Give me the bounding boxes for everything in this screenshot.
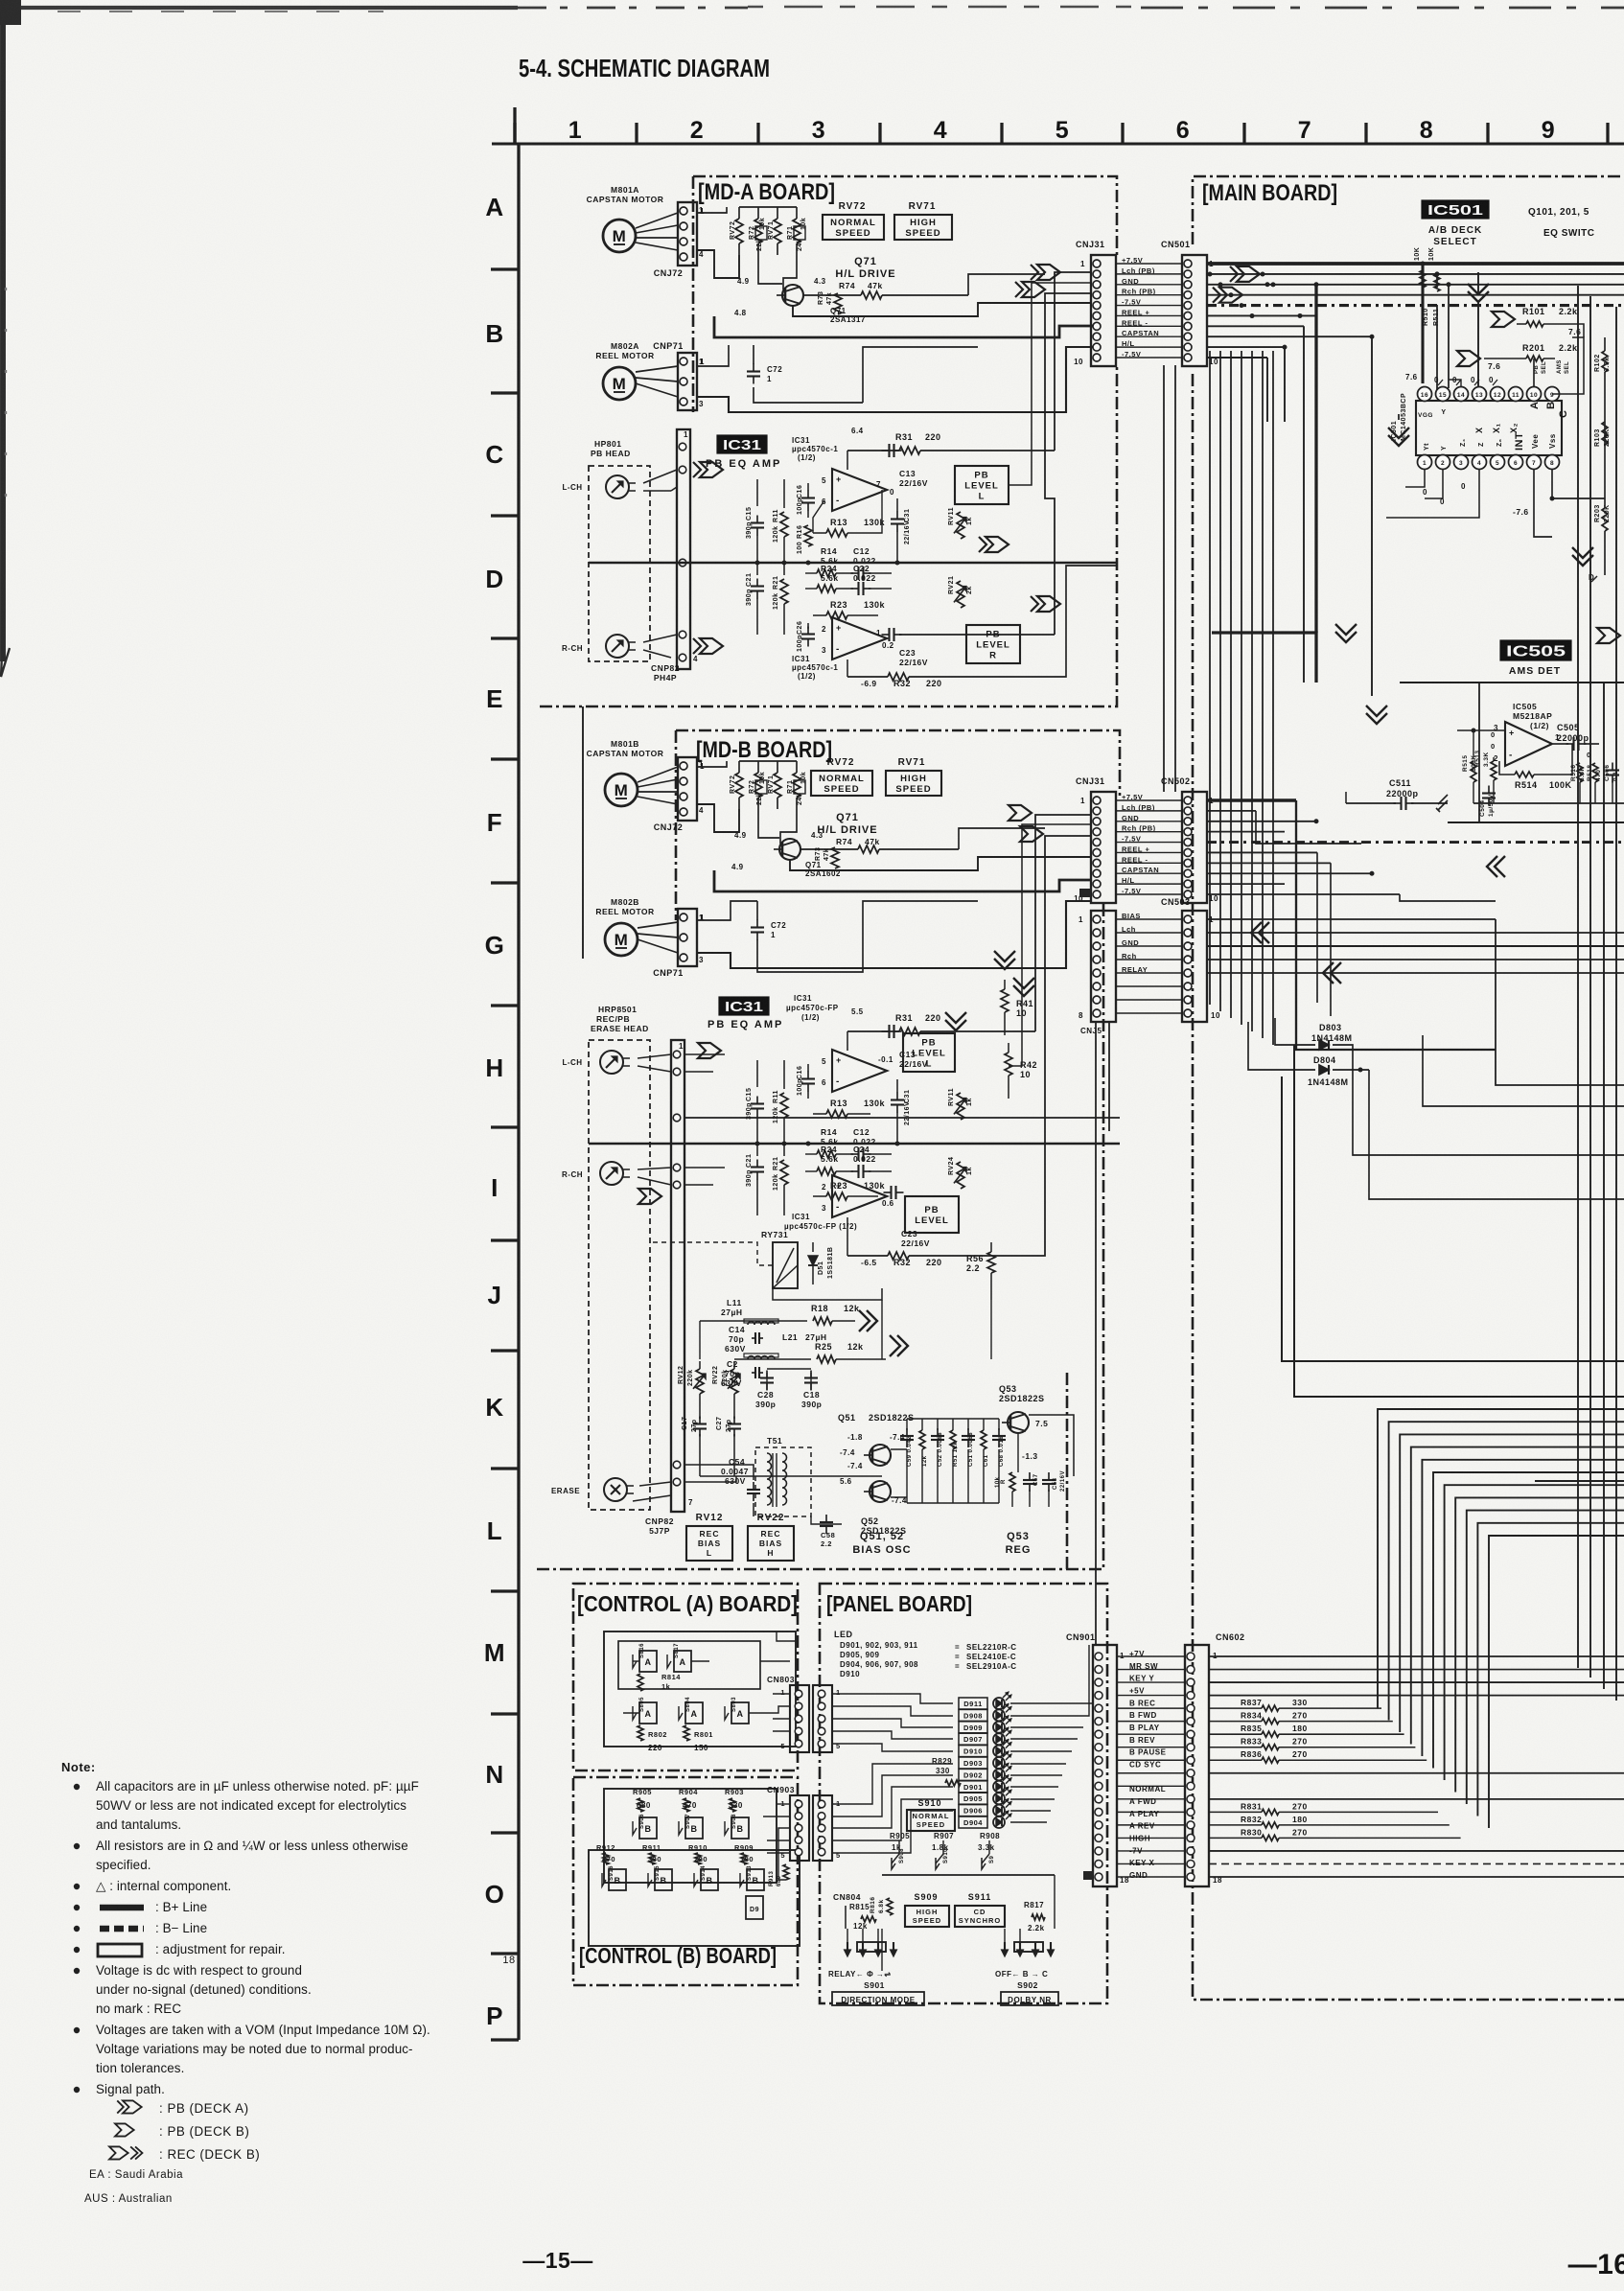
inductor L11 27uH with C14 xyxy=(721,1298,778,1354)
signal path arrow PB-B Lch input (MD-B) xyxy=(698,1043,721,1058)
resistors R905 R904 R903 (CONTROL-B) xyxy=(633,1788,744,1812)
switches S906 S907 S908 row B (CONTROL-B) xyxy=(633,1814,749,1839)
motor M802A reel motor xyxy=(595,341,678,400)
resistor R55 10k (Q53) xyxy=(995,1472,1015,1507)
resistor R13 130k feedback (MD-B) xyxy=(813,1099,886,1118)
adjustment box PB LEVEL R (MD-A) xyxy=(966,625,1020,663)
connector CNJ31 xyxy=(1074,776,1116,903)
connector CNP82 PH4P (MD-A) xyxy=(643,429,698,683)
resistor R56 2.2 xyxy=(966,1242,995,1300)
switch S909 HIGH SPEED box (panel) xyxy=(905,1892,949,1927)
MAIN board outline (dash-dot) xyxy=(1193,176,1624,2000)
resistors 10K 10K pullup (IC501) xyxy=(1414,247,1440,383)
small filled square near CN901 xyxy=(1083,1871,1094,1880)
wires MD-B motor area xyxy=(583,706,1091,972)
signal path arrow PB-A Lch input xyxy=(693,462,723,477)
resistor labels R510 R511 (IC501) xyxy=(1423,282,1451,394)
capacitor C28 390p xyxy=(755,1371,776,1410)
capacitor C72 1 (MD-A) xyxy=(747,345,782,384)
resistor R23 130k feedback (MD-A) xyxy=(813,600,886,619)
left chevron arrows on CAPSTAN row xyxy=(1487,856,1505,877)
resistor R32 220 (MD-B) xyxy=(847,1217,1035,1267)
PANEL board outline xyxy=(820,1584,1107,2003)
MD-B board outline (dash-dot) xyxy=(537,730,1120,1569)
switch S901 DIRECTION MODE (panel) xyxy=(828,1929,924,2005)
transistor Q51 with label xyxy=(838,1413,915,1470)
region notes EA AUS xyxy=(84,2169,183,2205)
switches S816 S817 leaf switch row 1 (CONTROL-A) xyxy=(633,1643,709,1691)
resistor R201 2.2k with chevron xyxy=(1457,343,1578,371)
IC501 pin voltage marks xyxy=(1405,359,1570,517)
capacitor C57 1 (Q53) xyxy=(1023,1472,1039,1507)
left ruler line xyxy=(517,144,520,2040)
trimmer RV12 220k xyxy=(678,1361,706,1409)
trimmer RV24 1k (MD-B) xyxy=(948,1157,973,1189)
adjustment box RV22 REC BIAS H xyxy=(748,1513,794,1561)
notes block xyxy=(61,1760,430,2096)
bias section wiring xyxy=(684,1054,1120,1524)
left ruler row letters A-P xyxy=(484,193,505,2030)
IC505 label AMS DET xyxy=(1500,640,1571,677)
connector CNJ72 (MD-A) xyxy=(654,202,705,278)
label Q53 REG xyxy=(1006,1531,1032,1556)
connector CNJ51 (MD-B lower) xyxy=(1079,911,1116,1035)
chevron arrows down near R41/R42 xyxy=(994,951,1034,996)
MD-B mid ground bus xyxy=(589,1142,1120,1146)
CN503 bus lines right xyxy=(1207,919,1624,1085)
mid bus lines CN502 to right xyxy=(1207,800,1624,1050)
capacitor C21 390p (MD-B) xyxy=(746,1144,764,1215)
signal path arrow PB-A Rch input xyxy=(693,638,723,654)
trimmer RV22 220k xyxy=(712,1361,740,1409)
junction dots on top bus xyxy=(1265,282,1375,349)
resistor R515 100K (IC505) xyxy=(1462,729,1477,804)
resistor R31 220 output (MD-A) xyxy=(847,432,1055,470)
resistor R18 12k with REC chevron xyxy=(778,1304,877,1331)
diode D804 1N4148M xyxy=(1248,1022,1624,1199)
capacitor C31 22/16V (MD-A) xyxy=(891,498,911,563)
signal path arrows PB-B near CNJ31-B xyxy=(1009,805,1043,842)
resistor R203 220K (right column) xyxy=(1594,498,1611,575)
bus vertical drops to mid connectors xyxy=(1212,285,1372,696)
signal path arrow PB-B Rch input (MD-B) xyxy=(638,1189,661,1204)
CONTROL-A wires to CN803 xyxy=(760,1631,796,1731)
switch S902 DOLBY NR (panel) xyxy=(995,1929,1058,2005)
capacitor C26 100p (MD-A) xyxy=(797,621,815,652)
signal path chevron right (IC505 input) xyxy=(1597,628,1620,643)
diode D201 mark xyxy=(1589,573,1597,582)
signal names CNJ31-CN502 xyxy=(1116,793,1182,895)
capacitor C23 22/16V (MD-A) xyxy=(882,628,1056,667)
resistor R41 10 (MD-B right) xyxy=(1001,980,1033,1035)
signal names CNJ51-CN503 xyxy=(1116,912,1182,1013)
resistor R11 120k (MD-A) xyxy=(773,479,788,563)
nested corner bus (panel to page 16) xyxy=(1378,1409,1624,1828)
capacitor C53 22/16V (Q53) xyxy=(1042,1470,1066,1507)
resistors R912 R911 R910 R909 (CONTROL-B) xyxy=(596,1843,754,1864)
transistor Q52 with label xyxy=(840,1477,907,1536)
trimmer RV21 1k (MD-A) xyxy=(948,576,1060,612)
vertical wires CNJ51 to CN901 xyxy=(1096,1022,1109,1645)
capacitor C511 22000p (main board) xyxy=(1346,778,1448,812)
wire corner B-REC route xyxy=(1535,1480,1624,1482)
head ERASE (MD-B) xyxy=(551,1478,634,1501)
signal path legend arrows xyxy=(109,2100,260,2162)
left chevrons on CN503 rows xyxy=(1251,922,1341,984)
adjustment box PB LEVEL R (MD-B) xyxy=(905,1196,959,1233)
signal path chevron down near CN502 b xyxy=(1366,706,1387,724)
capacitor C21 390p (MD-A) xyxy=(746,563,764,635)
trimmer RV11 1k (MD-A) xyxy=(948,507,1009,552)
resistor R24 5.6k + capacitor C22 0.022 (MD-A) xyxy=(805,564,892,595)
right edge long vertical bus xyxy=(1578,286,1616,1701)
signal path chevron down near CN502 a xyxy=(1335,624,1357,642)
connector CN503 xyxy=(1161,897,1220,1022)
motor M802B reel motor xyxy=(595,897,678,956)
motor M801A capstan motor xyxy=(587,185,678,252)
resistor R14 5.6k + capacitor C12 0.022 (MD-A) xyxy=(805,546,892,580)
resistor R73 47k (MD-B) xyxy=(815,847,839,868)
resistor R25 12k with REC chevron xyxy=(778,1335,908,1363)
op-amp IC31b R-channel (MD-A) xyxy=(792,617,894,681)
resistor R32 220 (MD-A) xyxy=(847,660,1055,688)
MD-A mid ground bus xyxy=(589,561,1117,566)
connector CN804 label (panel) xyxy=(833,1892,861,1929)
adjustment box RV71 HIGH SPEED (MD-B) xyxy=(886,757,941,796)
adjustment box RV71 HIGH SPEED (MD-A) xyxy=(894,201,952,240)
connector CN502 xyxy=(1161,776,1218,903)
resistor R31 220 output (MD-B) xyxy=(847,1013,1035,1051)
signal names CNJ31-CN501 xyxy=(1116,256,1182,359)
capacitor C31 22/16V (MD-B) xyxy=(891,1079,911,1144)
resistor R101 2.2k with chevron xyxy=(1492,307,1584,337)
junction dots bus-to-bundle xyxy=(1208,272,1276,319)
op-amp IC31b R-channel (MD-B) xyxy=(784,1175,894,1231)
resistor R14 5.6k + capacitor C12 0.022 (MD-B) xyxy=(805,1127,892,1161)
connector CN901 (panel right) xyxy=(1066,1632,1129,1886)
resistor R103 220K (right column) xyxy=(1594,422,1611,447)
resistors R516 R518 C506 (IC505 right) xyxy=(1570,763,1619,804)
resistor R817 2.2k (panel) xyxy=(1024,1901,1045,1932)
capacitor C23 22/16V (MD-B) xyxy=(884,1186,930,1248)
small filled square near CNJ31-B xyxy=(1079,889,1091,897)
CONTROL-B board outline xyxy=(573,1777,798,1985)
capacitor C505 22000p (IC505 output) xyxy=(1553,723,1599,759)
resistor R513 3.3K (IC505) xyxy=(1474,750,1496,803)
top ruler column numbers 1-9 xyxy=(568,117,1555,144)
switches S916 S915 S914 S913 row B (CONTROL-B) xyxy=(602,1865,764,1890)
head HRP8501 REC/PB erase head labels xyxy=(589,1005,650,1510)
resistor R74 47k (MD-A) xyxy=(803,281,968,299)
IC501 chip body MC14053BCP xyxy=(1391,387,1569,470)
trimmer RV11 1k (MD-B) xyxy=(948,1088,973,1120)
top bus lines CN501 to right edge xyxy=(1207,264,1624,358)
head HP801 PB head (MD-A) xyxy=(562,439,650,661)
capacitor C18 390p xyxy=(801,1371,822,1410)
LED type list (panel) xyxy=(834,1630,1017,1678)
straight panel bus lines to right edge xyxy=(1209,1656,1624,1877)
MD-A board outline (dash-dot) xyxy=(540,176,1117,706)
resistor R13 130k feedback (MD-A) xyxy=(813,490,886,537)
resistor R102 3.3k (right column) xyxy=(1594,337,1611,498)
resistor R42 10 (MD-B right) xyxy=(1005,1043,1037,1099)
diode D9 box (CONTROL-B) xyxy=(746,1896,763,1919)
capacitor C13 22/16V (MD-A) xyxy=(882,444,928,488)
CONTROL-B inner frame lower xyxy=(589,1850,800,1946)
vertical wires CN501 to CN502 xyxy=(1164,365,1175,792)
CONTROL-A inner frame xyxy=(604,1631,796,1747)
page top edge scan smudge xyxy=(0,0,1624,25)
transistor Q53 REG xyxy=(999,1384,1048,1461)
adjustment box RV72 NORMAL SPEED (MD-B) xyxy=(811,757,872,796)
transformer T51 xyxy=(755,1436,811,1516)
capacitor C15 390p (MD-A) xyxy=(746,479,764,563)
IC501 label A/B DECK SELECT xyxy=(1422,200,1489,247)
switch S911 CD SYNCHRO box (panel) xyxy=(955,1892,1005,1927)
scan noise overlay xyxy=(0,0,1,1)
resistors R905 R907 R908 + switches (panel) xyxy=(882,1832,1055,1875)
signal path chevron down (mid right) xyxy=(1572,547,1593,566)
capacitor C58 2.2 xyxy=(820,1515,835,1548)
label Q51 52 BIAS OSC xyxy=(852,1531,911,1556)
connector CNP71 (MD-B) xyxy=(653,909,705,978)
mid connector linking wires (panel internals) xyxy=(832,1645,1093,1971)
op-amp IC31a L-channel (MD-B) xyxy=(822,1007,893,1092)
diode D51 1SS181B xyxy=(773,1242,882,1300)
connector CN903 (CONTROL-B to panel) xyxy=(767,1785,841,1861)
transistor Q71 H/L drive (MD-B) xyxy=(731,812,878,878)
panel-main resistors R837 R834 R835 R833 R836 xyxy=(1209,1698,1427,1763)
top ruler ticks xyxy=(515,107,1608,144)
capacitor C13 22/16V (MD-B) xyxy=(882,1025,928,1069)
adjustment box RV72 NORMAL SPEED (MD-A) xyxy=(823,201,884,240)
capacitor C72 1 (MD-B) xyxy=(751,901,786,959)
resistor network RV72 R72 RV71 R71 (MD-B) xyxy=(730,761,807,809)
head L-CH (MD-B) xyxy=(562,1051,630,1074)
op-amp IC505 M5218AP xyxy=(1491,702,1560,766)
signal path arrows on top bus (PB-A) xyxy=(1015,265,1260,303)
connector CNP82 5J7P (MD-B) xyxy=(633,1040,693,1536)
capacitor C27 27p xyxy=(716,1409,741,1476)
adjustment box RV12 REC BIAS L xyxy=(686,1513,732,1561)
signal path chevron down left of IC501 xyxy=(1388,428,1409,446)
CONTROL-B inner frame upper xyxy=(604,1789,777,1883)
resistor R16 100 (MD-A) xyxy=(797,525,812,554)
MD-B output riser wires xyxy=(1009,815,1091,1256)
wires MD-A motor area to CNJ31 xyxy=(697,207,1093,412)
resistor R21 120k (MD-B) xyxy=(773,1144,788,1215)
signal path chevron down (REC into IC501) xyxy=(1468,284,1489,302)
adjustment box PB LEVEL L (MD-A) xyxy=(955,466,1009,504)
bias oscillator RC forest xyxy=(900,1419,1006,1503)
transistor Q71 H/L drive (MD-A) xyxy=(734,256,896,324)
resistor R21 120k (MD-A) xyxy=(773,563,788,635)
capacitor C15 390p (MD-B) xyxy=(746,1060,764,1144)
wire pair MD-B to page-16 (rows J-K) xyxy=(1282,1045,1624,1397)
IC501 surrounding wires xyxy=(1386,337,1605,537)
MD-A output riser wires xyxy=(1009,272,1117,677)
connector CN501 xyxy=(1161,240,1218,366)
switches S805 S804 S803 leaf switch row 2 (CONTROL-A) xyxy=(623,1697,767,1752)
IC31 label (MD-A) xyxy=(706,435,838,470)
CONTROL-B wires to CN903 xyxy=(763,1804,790,1880)
resistor R11 120k (MD-B) xyxy=(773,1060,788,1144)
adjustment box PB LEVEL L (MD-B) xyxy=(903,1033,955,1072)
switch S910 NORMAL SPEED box (panel) xyxy=(907,1798,955,1831)
capacitor C504 1u/50V (IC505) xyxy=(1479,786,1496,818)
resistor R514 100K feedback (IC505) xyxy=(1499,744,1572,790)
connector CNJ72 (MD-B) xyxy=(654,757,705,832)
capacitor C16 100p (MD-A) xyxy=(797,483,815,518)
left ruler ticks xyxy=(491,269,519,2040)
resistor R73 47k (MD-A) xyxy=(818,291,842,314)
head R-CH (MD-B) xyxy=(562,1162,630,1185)
inductor L21 27uH with C24cap xyxy=(721,1332,827,1388)
LED column D911..D904 (panel) xyxy=(959,1692,1011,1828)
text Q101 201 EQ SWITCH (top right) xyxy=(1528,207,1594,239)
IC31 label (MD-B) xyxy=(708,994,839,1030)
resistor R816 6.8k (panel) xyxy=(870,1896,893,1915)
IC505 area wires xyxy=(1400,683,1624,822)
capacitor C17 27p xyxy=(682,1409,707,1476)
resistor R23 130k feedback (MD-B) xyxy=(813,1181,886,1200)
connector CNP71 (MD-A) xyxy=(653,341,705,410)
connector CN602 (main board side) xyxy=(1185,1632,1245,1886)
chevron arrow down H row xyxy=(945,1012,966,1030)
resistor R815 12k (panel) xyxy=(849,1903,876,1931)
resistor R913 680 (CONTROL-B) xyxy=(769,1864,789,1886)
page left edge scan smudge xyxy=(1,12,10,677)
resistor R74 47k (MD-B) xyxy=(800,837,959,853)
diode D803 1N4148M xyxy=(1275,1018,1624,1155)
resistor R24 5.6k + capacitor C22 0.022 (MD-B) xyxy=(805,1145,892,1178)
relay RY731 xyxy=(650,1230,798,1288)
vertical wire bundle center (top bus to CN502 and below) xyxy=(1210,351,1273,1045)
op-amp IC31a L-channel (MD-A) xyxy=(822,427,894,511)
connector CNJ31 xyxy=(1074,240,1116,366)
capacitor C54 0.0047 630V xyxy=(721,1457,760,1501)
resistor network RV72 R72 RV71 R71 (MD-A) xyxy=(730,207,807,255)
wire drop to IC501 pin13 xyxy=(1477,272,1479,388)
capacitor C16 100p (MD-B) xyxy=(797,1064,815,1099)
CONTROL-A board outline xyxy=(573,1584,798,1770)
motor M801B capstan motor xyxy=(587,739,678,806)
signal names CN901-CN602 xyxy=(1117,1650,1185,1880)
panel-main resistors R831 R832 R830 xyxy=(1209,1801,1461,1840)
connector CN803 (CONTROL-A to panel) xyxy=(767,1675,841,1752)
wire chevron drop xyxy=(1398,414,1400,420)
resistor R829 330 (panel) xyxy=(932,1757,961,1786)
top ruler line xyxy=(492,142,1624,145)
